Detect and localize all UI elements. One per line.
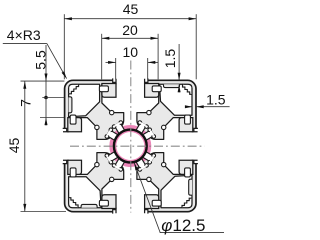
right T-slot: [146, 115, 198, 177]
dim 10: [115, 58, 117, 79]
svg-text:7: 7: [18, 99, 34, 107]
bottom-left corner chamber: [68, 177, 101, 208]
leader phi 12.5: [134, 163, 160, 233]
dim 5.5: [45, 45, 47, 98]
profile outer body (45x45 extrusion): [65, 80, 196, 211]
vertical centerline: [130, 61, 132, 213]
svg-text:45: 45: [123, 1, 139, 17]
top T-slot: [99, 78, 161, 130]
top-left corner chamber: [68, 84, 99, 117]
svg-text:45: 45: [6, 138, 22, 154]
dim 45 top: [63, 14, 65, 79]
dim 1.5 top wall: [178, 44, 180, 80]
svg-text:φ12.5: φ12.5: [161, 216, 205, 235]
dim 7: [45, 98, 47, 118]
bottom-right corner chamber: [161, 175, 192, 208]
svg-text:10: 10: [123, 44, 139, 60]
dim 20: [101, 34, 103, 80]
left T-slot: [63, 115, 115, 177]
svg-text:1.5: 1.5: [206, 92, 226, 108]
horizontal centerline: [70, 145, 205, 147]
pink highlight ring (bore phi12.5): [109, 125, 151, 167]
bottom T-slot: [99, 162, 161, 214]
svg-text:4×R3: 4×R3: [7, 27, 41, 43]
bore ring outline: [114, 130, 147, 163]
dim 45 left: [21, 80, 65, 82]
dim 1.5 right wall: [185, 106, 192, 108]
svg-text:1.5: 1.5: [162, 49, 178, 69]
top-right corner chamber: [160, 84, 193, 115]
bore screw channels (8 prongs): [112, 120, 127, 135]
bore hole: [116, 132, 144, 160]
leader 4xR3: [3, 42, 47, 44]
svg-text:5.5: 5.5: [32, 50, 48, 70]
svg-text:20: 20: [122, 22, 138, 38]
